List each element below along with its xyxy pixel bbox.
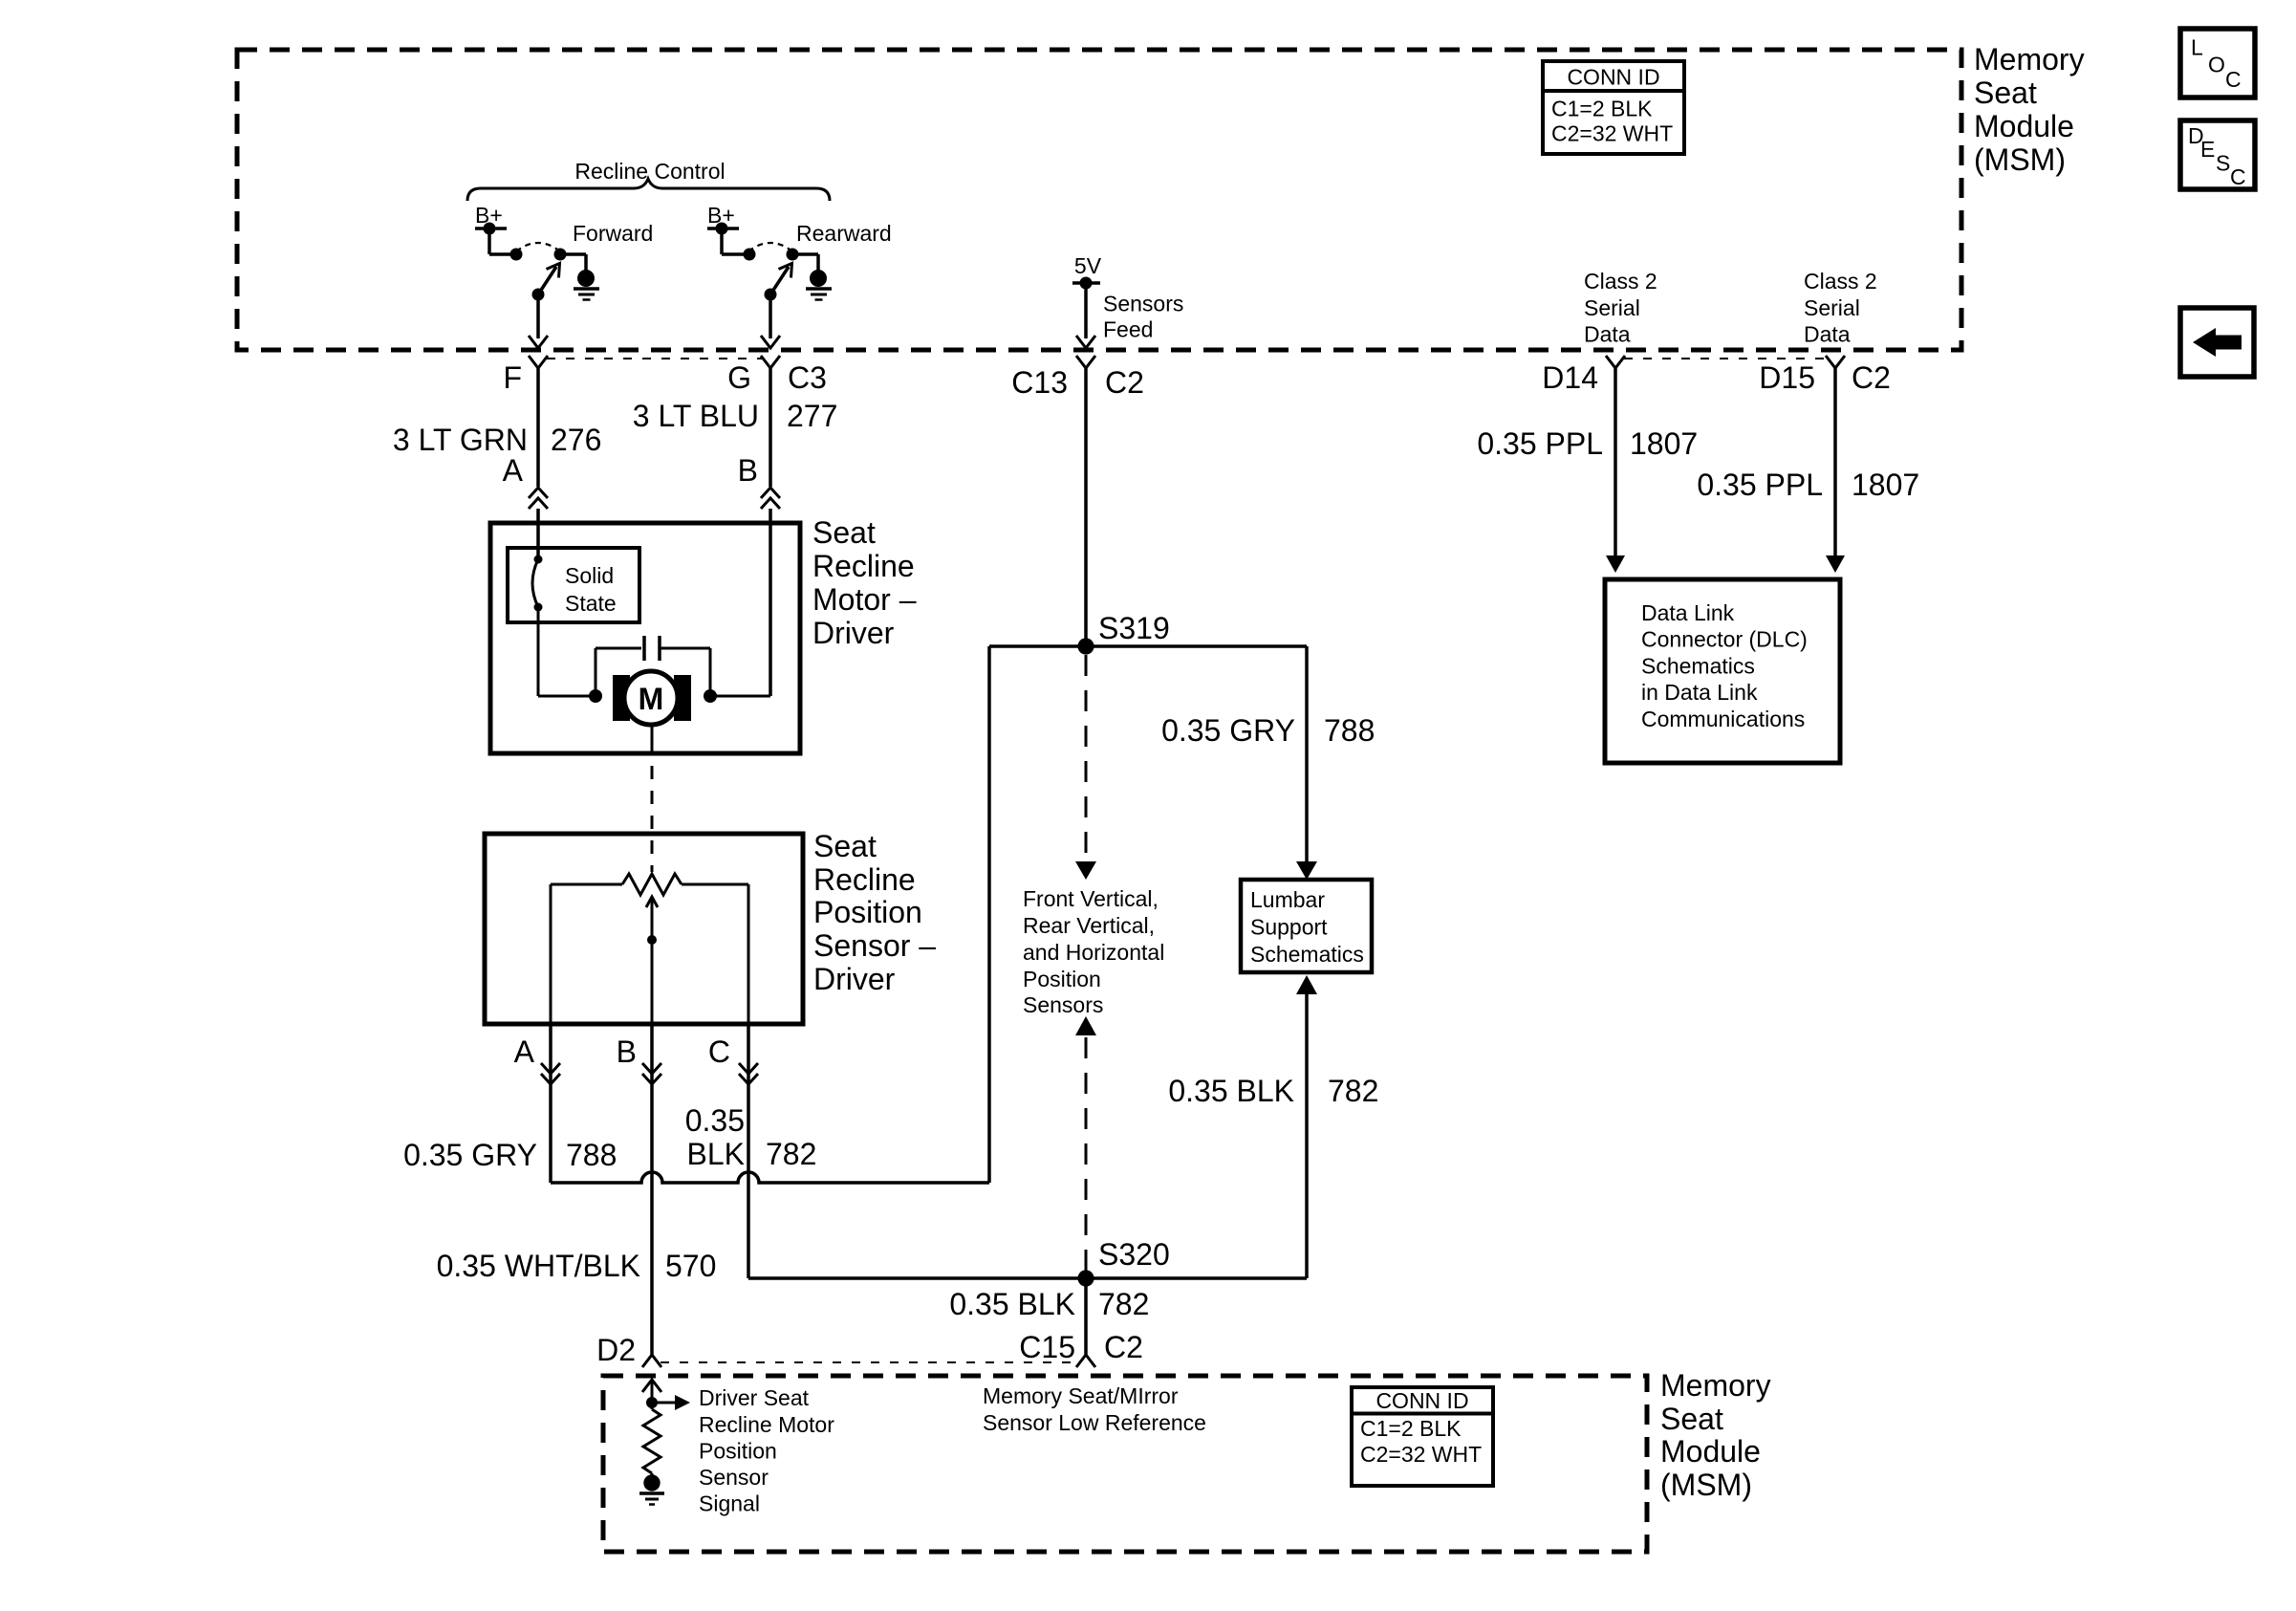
svg-text:Rearward: Rearward: [796, 221, 892, 246]
svg-text:(MSM): (MSM): [1660, 1468, 1752, 1502]
svg-text:Seat: Seat: [813, 829, 877, 863]
svg-text:Position: Position: [1023, 967, 1101, 991]
svg-text:0.35 WHT/BLK: 0.35 WHT/BLK: [437, 1249, 640, 1283]
svg-text:C15: C15: [1019, 1330, 1075, 1364]
svg-text:570: 570: [665, 1249, 716, 1283]
svg-text:C2=32 WHT: C2=32 WHT: [1551, 121, 1673, 146]
svg-text:B+: B+: [475, 203, 503, 228]
svg-text:Data: Data: [1804, 322, 1851, 347]
svg-text:Data: Data: [1584, 322, 1631, 347]
svg-text:782: 782: [1098, 1287, 1149, 1321]
svg-text:Driver Seat: Driver Seat: [699, 1385, 810, 1410]
svg-text:A: A: [514, 1034, 535, 1069]
svg-text:3 LT BLU: 3 LT BLU: [633, 399, 759, 433]
svg-text:Data Link: Data Link: [1641, 600, 1735, 625]
svg-text:Rear Vertical,: Rear Vertical,: [1023, 913, 1155, 938]
svg-text:C1=2 BLK: C1=2 BLK: [1551, 97, 1653, 121]
svg-text:Class 2: Class 2: [1804, 269, 1877, 294]
svg-text:Module: Module: [1660, 1434, 1761, 1469]
svg-text:CONN ID: CONN ID: [1375, 1388, 1468, 1413]
svg-text:D2: D2: [596, 1333, 636, 1367]
svg-text:5V: 5V: [1074, 253, 1102, 278]
svg-text:Communications: Communications: [1641, 707, 1805, 731]
svg-text:Driver: Driver: [813, 962, 896, 996]
svg-text:0.35 BLK: 0.35 BLK: [1168, 1074, 1294, 1108]
svg-text:Sensors: Sensors: [1103, 292, 1183, 316]
svg-text:C2: C2: [1104, 1330, 1143, 1364]
svg-text:Position: Position: [699, 1439, 777, 1464]
svg-text:Driver: Driver: [812, 616, 895, 650]
svg-text:Schematics: Schematics: [1641, 653, 1755, 678]
svg-text:Schematics: Schematics: [1250, 942, 1364, 967]
svg-text:O: O: [2208, 53, 2225, 77]
svg-text:Memory: Memory: [1974, 42, 2085, 76]
svg-text:C1=2 BLK: C1=2 BLK: [1360, 1416, 1462, 1441]
svg-text:Recline Control: Recline Control: [574, 159, 725, 184]
svg-text:782: 782: [1328, 1074, 1378, 1108]
svg-text:Seat: Seat: [812, 515, 876, 550]
svg-text:0.35: 0.35: [685, 1103, 745, 1138]
svg-text:Recline Motor: Recline Motor: [699, 1412, 834, 1437]
svg-text:Signal: Signal: [699, 1491, 760, 1516]
svg-text:Sensor –: Sensor –: [813, 928, 936, 963]
svg-text:Serial: Serial: [1804, 295, 1860, 320]
svg-text:BLK: BLK: [687, 1137, 745, 1171]
svg-text:CONN ID: CONN ID: [1567, 65, 1659, 90]
svg-text:S319: S319: [1098, 611, 1170, 645]
svg-text:Serial: Serial: [1584, 295, 1640, 320]
svg-text:C2=32 WHT: C2=32 WHT: [1360, 1442, 1482, 1467]
svg-text:3 LT GRN: 3 LT GRN: [393, 423, 528, 457]
svg-text:Motor –: Motor –: [812, 582, 917, 617]
svg-text:1807: 1807: [1852, 468, 1919, 502]
svg-text:0.35 PPL: 0.35 PPL: [1697, 468, 1823, 502]
svg-text:277: 277: [787, 399, 837, 433]
svg-text:C: C: [2230, 164, 2246, 189]
svg-text:782: 782: [766, 1137, 816, 1171]
svg-text:(MSM): (MSM): [1974, 142, 2066, 177]
svg-text:B: B: [617, 1034, 637, 1069]
svg-text:F: F: [503, 360, 522, 395]
svg-text:Forward: Forward: [573, 221, 653, 246]
svg-text:B+: B+: [707, 203, 735, 228]
svg-text:788: 788: [566, 1138, 617, 1172]
svg-text:0.35 GRY: 0.35 GRY: [403, 1138, 537, 1172]
svg-text:B: B: [738, 453, 758, 488]
svg-text:A: A: [503, 453, 524, 488]
svg-text:C2: C2: [1852, 360, 1891, 395]
svg-text:M: M: [639, 682, 664, 716]
svg-text:Recline: Recline: [812, 549, 915, 583]
svg-text:D14: D14: [1542, 360, 1598, 395]
svg-text:C3: C3: [788, 360, 827, 395]
svg-text:C: C: [2225, 67, 2242, 92]
svg-text:0.35 PPL: 0.35 PPL: [1477, 426, 1603, 461]
svg-text:Support: Support: [1250, 915, 1328, 940]
svg-text:Seat: Seat: [1974, 76, 2037, 110]
svg-text:Lumbar: Lumbar: [1250, 887, 1325, 912]
svg-text:Sensor: Sensor: [699, 1465, 769, 1490]
svg-text:C: C: [708, 1034, 730, 1069]
svg-text:276: 276: [551, 423, 601, 457]
svg-text:Seat: Seat: [1660, 1402, 1723, 1436]
svg-text:0.35 BLK: 0.35 BLK: [949, 1287, 1075, 1321]
svg-text:E: E: [2200, 137, 2215, 162]
svg-text:Solid: Solid: [565, 563, 614, 588]
svg-text:Sensors: Sensors: [1023, 992, 1103, 1017]
svg-text:Module: Module: [1974, 109, 2074, 143]
svg-text:and Horizontal: and Horizontal: [1023, 940, 1164, 965]
svg-text:Class 2: Class 2: [1584, 269, 1657, 294]
svg-text:Front Vertical,: Front Vertical,: [1023, 886, 1159, 911]
svg-text:Position: Position: [813, 895, 922, 929]
svg-text:Memory Seat/MIrror: Memory Seat/MIrror: [983, 1383, 1179, 1408]
svg-text:C13: C13: [1011, 365, 1068, 400]
svg-text:L: L: [2191, 35, 2203, 60]
svg-text:Recline: Recline: [813, 862, 916, 897]
svg-text:0.35 GRY: 0.35 GRY: [1161, 713, 1295, 748]
svg-text:Sensor Low Reference: Sensor Low Reference: [983, 1410, 1206, 1435]
svg-text:Memory: Memory: [1660, 1368, 1771, 1403]
svg-text:C2: C2: [1105, 365, 1144, 400]
svg-text:Connector (DLC): Connector (DLC): [1641, 627, 1808, 652]
svg-text:S320: S320: [1098, 1237, 1170, 1272]
svg-text:G: G: [727, 360, 751, 395]
svg-text:1807: 1807: [1630, 426, 1698, 461]
svg-text:788: 788: [1324, 713, 1375, 748]
svg-text:D15: D15: [1759, 360, 1815, 395]
svg-text:S: S: [2216, 151, 2230, 176]
svg-text:in Data Link: in Data Link: [1641, 680, 1758, 705]
svg-text:Feed: Feed: [1103, 317, 1153, 342]
svg-text:State: State: [565, 591, 617, 616]
